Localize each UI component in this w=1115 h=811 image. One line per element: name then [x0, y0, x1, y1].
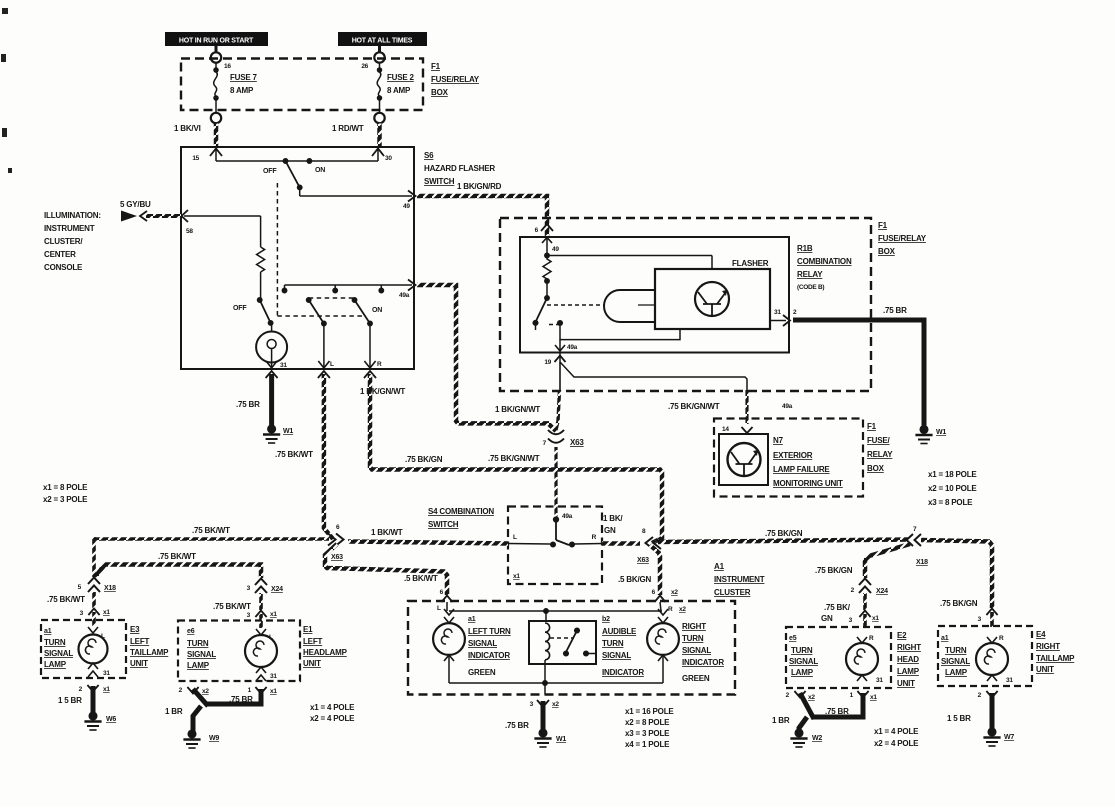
node X63 junction (right) [646, 537, 662, 549]
wire 5 GY/BU [121, 211, 181, 222]
svg-text:FUSE/: FUSE/ [867, 436, 891, 445]
svg-text:BOX: BOX [867, 464, 885, 473]
audible turn signal indicator b2 relay box [529, 621, 596, 664]
fuse FUSE 2 8 AMP [374, 46, 384, 123]
pin 2 x1 below E3 [87, 685, 98, 692]
svg-text:OFF: OFF [263, 168, 277, 175]
wire illumination branch [184, 216, 261, 247]
svg-text:RIGHT: RIGHT [1036, 642, 1060, 651]
svg-text:BOX: BOX [431, 88, 449, 97]
ground W9 [183, 730, 200, 748]
resistor (relay) [543, 257, 551, 279]
flasher unit box [655, 269, 770, 329]
wire cluster top bus [447, 602, 662, 621]
turn signal indicator lamp left (a1) [433, 609, 465, 683]
pin 31 / pin L / pin R of S6 [266, 324, 376, 370]
connector X24 (left) [255, 579, 267, 594]
svg-text:ILLUMINATION:: ILLUMINATION: [44, 211, 101, 220]
svg-text:LAMP: LAMP [897, 667, 920, 676]
svg-text:1 BK/WT: 1 BK/WT [371, 528, 403, 537]
svg-text:31: 31 [280, 362, 287, 369]
svg-text:1 BK/GN/WT: 1 BK/GN/WT [360, 387, 405, 396]
svg-text:49: 49 [552, 246, 559, 253]
label b2 AUDIBLE TURN SIGNAL INDICATOR [602, 616, 644, 677]
node X63 junction (left) [328, 534, 344, 546]
label E3 LEFT TAILLAMP UNIT [130, 625, 169, 668]
svg-text:A1: A1 [714, 562, 725, 571]
svg-text:X24: X24 [876, 588, 888, 595]
hazard flasher switch S6 box [181, 147, 414, 369]
svg-text:30: 30 [385, 155, 392, 162]
svg-text:1 5 BR: 1 5 BR [947, 714, 971, 723]
exit arrows below S6 [266, 371, 376, 378]
svg-text:1 5 BR: 1 5 BR [58, 696, 82, 705]
svg-text:14: 14 [722, 426, 729, 433]
svg-text:OFF: OFF [233, 305, 247, 312]
transistor (monitoring unit) [728, 443, 761, 476]
pin 49 exit arrow [408, 191, 416, 202]
label a1 LEFT TURN SIGNAL INDICATOR GREEN [468, 616, 511, 677]
svg-text:GREEN: GREEN [468, 668, 496, 677]
svg-text:49a: 49a [567, 344, 578, 351]
svg-text:49a: 49a [782, 403, 793, 410]
switch S4 contacts [508, 521, 602, 547]
svg-text:.75 BK/GN/WT: .75 BK/GN/WT [668, 402, 720, 411]
wire .75 BK/WT (long left feed) [94, 537, 329, 541]
svg-text:SWITCH: SWITCH [424, 177, 455, 186]
svg-text:R: R [999, 635, 1004, 642]
wire .75 BK/GN (from pin R) [370, 374, 662, 543]
svg-text:.75 BK/WT: .75 BK/WT [275, 450, 313, 459]
svg-text:x1: x1 [872, 615, 879, 622]
ground W1 (cluster) [534, 729, 551, 747]
svg-text:1 BK/GN/WT: 1 BK/GN/WT [495, 405, 540, 414]
svg-text:W2: W2 [812, 735, 822, 742]
label F1 FUSE/RELAY BOX (monitoring) [867, 422, 893, 473]
wire .75 BK/GN (long right feed) [658, 540, 908, 543]
svg-text:x2: x2 [202, 688, 209, 695]
svg-text:W1: W1 [556, 736, 566, 743]
connector X63 (center) [548, 430, 564, 443]
svg-text:AUDIBLE: AUDIBLE [602, 627, 637, 636]
label illumination instrument cluster/center console [44, 211, 101, 272]
svg-text:.75 BK/GN: .75 BK/GN [815, 566, 853, 575]
svg-text:W1: W1 [283, 428, 293, 435]
wire to E3 pin 3 [92, 592, 96, 608]
relay output pin 31/2 [770, 315, 790, 326]
svg-text:RELAY: RELAY [867, 450, 893, 459]
pin 30 [372, 149, 384, 157]
label F1 FUSE/RELAY BOX (top) [431, 62, 480, 97]
svg-text:x3 = 3 POLE: x3 = 3 POLE [625, 729, 670, 738]
svg-text:RIGHT: RIGHT [682, 622, 706, 631]
pin 6 entry left [442, 596, 453, 603]
svg-text:x1: x1 [513, 573, 520, 580]
svg-text:(CODE B): (CODE B) [797, 284, 824, 291]
svg-text:CENTER: CENTER [44, 250, 76, 259]
connector X24 (right) [859, 579, 871, 594]
svg-text:a1: a1 [941, 635, 949, 642]
svg-text:W6: W6 [106, 716, 116, 723]
relay b2 link and contacts [550, 628, 596, 656]
svg-text:.75 BK/GN/WT: .75 BK/GN/WT [488, 454, 540, 463]
svg-text:LAMP: LAMP [791, 668, 814, 677]
svg-text:INDICATOR: INDICATOR [682, 658, 724, 667]
svg-text:.75 BK/GN: .75 BK/GN [940, 599, 978, 608]
turn signal lamp E3 [79, 627, 108, 677]
svg-text:X24: X24 [271, 586, 283, 593]
svg-text:HOT AT ALL TIMES: HOT AT ALL TIMES [352, 38, 413, 45]
svg-text:.5 BK/WT: .5 BK/WT [404, 574, 438, 583]
monitoring unit inner box [719, 434, 768, 485]
svg-text:x1: x1 [270, 611, 277, 618]
svg-text:FUSE/RELAY: FUSE/RELAY [431, 75, 480, 84]
svg-text:TAILLAMP: TAILLAMP [130, 648, 169, 657]
svg-text:x1 = 16 POLE: x1 = 16 POLE [625, 707, 674, 716]
svg-text:TURN: TURN [44, 638, 66, 647]
wire hazard switch feed row [216, 147, 378, 161]
svg-text:INDICATOR: INDICATOR [468, 651, 510, 660]
svg-text:x1: x1 [270, 688, 277, 695]
svg-text:R: R [592, 534, 597, 541]
svg-text:x2: x2 [679, 606, 686, 613]
svg-text:E3: E3 [130, 625, 140, 634]
wire .75 BR / 1 BR to ground W2 [799, 693, 863, 731]
svg-text:R: R [869, 635, 874, 642]
pin 15 [210, 149, 222, 157]
svg-text:HEADLAMP: HEADLAMP [303, 648, 348, 657]
svg-text:19: 19 [544, 359, 551, 366]
svg-text:1 BR: 1 BR [165, 707, 183, 716]
svg-text:49a: 49a [399, 292, 410, 299]
svg-text:FLASHER: FLASHER [732, 259, 769, 268]
label A1 INSTRUMENT CLUSTER [714, 562, 765, 597]
svg-text:a1: a1 [468, 616, 476, 623]
svg-text:16: 16 [224, 63, 231, 70]
svg-text:x1 = 4 POLE: x1 = 4 POLE [874, 727, 919, 736]
svg-text:TURN: TURN [187, 639, 209, 648]
svg-text:ON: ON [315, 167, 325, 174]
svg-text:GREEN: GREEN [682, 674, 710, 683]
svg-text:CLUSTER/: CLUSTER/ [44, 237, 83, 246]
pin 49a bottom of relay [536, 323, 566, 351]
svg-text:LEFT: LEFT [130, 637, 150, 646]
svg-text:5 GY/BU: 5 GY/BU [120, 200, 151, 209]
relay coil [604, 290, 655, 322]
svg-text:S6: S6 [424, 151, 434, 160]
wire contact to flasher [560, 323, 680, 340]
svg-text:HAZARD FLASHER: HAZARD FLASHER [424, 164, 495, 173]
svg-text:.75 BR: .75 BR [883, 306, 907, 315]
turn signal indicator lamp right [647, 609, 679, 683]
svg-text:1 BK/GN/RD: 1 BK/GN/RD [457, 182, 502, 191]
label E4 RIGHT TAILLAMP UNIT [1036, 630, 1075, 674]
wire relay down to X63 center [559, 362, 561, 390]
svg-text:ON: ON [372, 307, 382, 314]
svg-text:.75 BK/GN: .75 BK/GN [765, 529, 803, 538]
wire .75 BK/GN branch to X24 right [865, 544, 910, 578]
svg-text:x2 = 8 POLE: x2 = 8 POLE [625, 718, 670, 727]
svg-text:L: L [330, 361, 334, 368]
svg-text:x1 = 18 POLE: x1 = 18 POLE [928, 470, 977, 479]
fuse/relay box F1 (relay, dashed) [500, 218, 871, 391]
svg-text:W7: W7 [1004, 734, 1014, 741]
svg-text:.75 BR: .75 BR [229, 695, 253, 704]
label R18 COMBINATION RELAY (CODE B) [797, 244, 852, 291]
svg-text:L: L [513, 534, 517, 541]
wire 1 BK/GN/WT (terminal 49a to X63) [417, 285, 556, 431]
svg-text:LEFT: LEFT [303, 637, 323, 646]
svg-text:x2 = 3 POLE: x2 = 3 POLE [43, 495, 88, 504]
wire .75 BK/GN/WT (X63 to S4) [554, 447, 557, 518]
wire 1 RD/WT [377, 124, 382, 148]
pin 3 x1 into E3 [88, 609, 99, 616]
wire .75 BR cluster [541, 701, 546, 730]
pin 3 x2 cluster ground [537, 700, 549, 707]
svg-text:SIGNAL: SIGNAL [682, 646, 711, 655]
svg-text:F1: F1 [431, 62, 441, 71]
taillamp unit E4 box (right) [938, 626, 1032, 686]
lamp (hazard switch illumination) [256, 324, 287, 363]
svg-text:x2 = 4 POLE: x2 = 4 POLE [310, 714, 355, 723]
svg-text:TURN: TURN [945, 646, 967, 655]
svg-text:UNIT: UNIT [897, 679, 915, 688]
transistor (flasher) [695, 282, 729, 316]
wire .75 BR to ground [269, 374, 274, 428]
svg-text:LEFT TURN: LEFT TURN [468, 627, 511, 636]
wire .75 BR / 1 BR to ground W9 [193, 689, 261, 731]
wire .75 BK/GN to E4 [921, 540, 992, 608]
svg-text:HEAD: HEAD [897, 655, 919, 664]
svg-text:x4 = 1 POLE: x4 = 1 POLE [625, 740, 670, 749]
ground W1 (left) [263, 425, 280, 443]
wire 1 BK/GN (S4 to junction) [602, 541, 640, 546]
fuse F1-7 terminal top [215, 46, 218, 52]
svg-text:X18: X18 [916, 559, 928, 566]
connector X18 (right) [907, 534, 922, 546]
wire .5 BK/WT (junction to cluster) [325, 544, 447, 595]
svg-text:R: R [377, 361, 382, 368]
svg-text:1 BR: 1 BR [772, 716, 790, 725]
svg-text:e6: e6 [187, 628, 195, 635]
relay internal feed [545, 237, 712, 269]
svg-text:E1: E1 [303, 625, 313, 634]
svg-text:.75 BK/WT: .75 BK/WT [158, 552, 196, 561]
connector X18 (left) [88, 578, 100, 593]
svg-text:8 AMP: 8 AMP [387, 86, 411, 95]
svg-text:31: 31 [774, 309, 781, 316]
pin 2 x2 and pin 1 x1 below E2 [794, 691, 805, 698]
ground W6 [84, 712, 101, 730]
svg-text:SIGNAL: SIGNAL [44, 649, 73, 658]
svg-text:26: 26 [361, 63, 368, 70]
svg-text:SIGNAL: SIGNAL [468, 639, 497, 648]
power label HOT IN RUN OR START [165, 32, 268, 46]
svg-text:x2 = 4 POLE: x2 = 4 POLE [874, 739, 919, 748]
headlamp unit E1 box (left) [178, 621, 300, 682]
svg-text:FUSE 7: FUSE 7 [230, 73, 258, 82]
svg-text:COMBINATION: COMBINATION [797, 257, 852, 266]
svg-text:1 RD/WT: 1 RD/WT [332, 124, 364, 133]
power label HOT AT ALL TIMES [338, 32, 427, 46]
label E1 LEFT HEADLAMP UNIT [303, 625, 348, 668]
wire .75 BK/WT drop to X18 left [92, 537, 96, 577]
svg-text:x2: x2 [671, 589, 678, 596]
ground W7 [983, 728, 1000, 746]
wire 1.5 BR E3 [91, 686, 96, 714]
wire .5 BK/GN (junction to cluster) [650, 545, 660, 595]
svg-text:R: R [668, 606, 673, 613]
wire .75 BK/WT (from pin L) [324, 374, 333, 539]
ground W1 (right) [915, 426, 932, 444]
svg-text:x1 = 8 POLE: x1 = 8 POLE [43, 483, 88, 492]
svg-text:31: 31 [270, 673, 277, 680]
svg-text:49a: 49a [562, 513, 573, 520]
svg-text:.75 BK/WT: .75 BK/WT [213, 602, 251, 611]
wire cluster bottom bus [449, 664, 663, 695]
svg-text:.75 BK/: .75 BK/ [824, 603, 851, 612]
svg-text:SIGNAL: SIGNAL [789, 657, 818, 666]
svg-text:SIGNAL: SIGNAL [187, 650, 216, 659]
svg-text:15: 15 [192, 155, 199, 162]
wire 1 BK/GN/RD [417, 196, 547, 238]
svg-text:TURN: TURN [791, 646, 813, 655]
svg-text:RIGHT: RIGHT [897, 643, 921, 652]
svg-text:X63: X63 [331, 554, 343, 561]
svg-text:X18: X18 [104, 585, 116, 592]
svg-text:R1B: R1B [797, 244, 813, 253]
svg-text:x3 = 8 POLE: x3 = 8 POLE [928, 498, 973, 507]
pin 2 x2 and pin 1 x1 below E1 [187, 687, 198, 694]
svg-text:TAILLAMP: TAILLAMP [1036, 654, 1075, 663]
svg-text:X63: X63 [570, 438, 584, 447]
svg-text:EXTERIOR: EXTERIOR [773, 451, 813, 460]
svg-text:x1 = 4 POLE: x1 = 4 POLE [310, 703, 355, 712]
svg-text:UNIT: UNIT [1036, 665, 1054, 674]
pin 19 below relay box [555, 356, 566, 363]
svg-text:LAMP: LAMP [187, 661, 210, 670]
svg-text:HOT IN RUN OR START: HOT IN RUN OR START [179, 38, 254, 45]
svg-text:UNIT: UNIT [303, 659, 321, 668]
ground W2 [790, 729, 807, 747]
svg-text:L: L [101, 633, 105, 640]
svg-text:E4: E4 [1036, 630, 1046, 639]
label RIGHT TURN SIGNAL INDICATOR GREEN [682, 622, 724, 683]
svg-text:S4 COMBINATION: S4 COMBINATION [428, 507, 494, 516]
svg-text:x1: x1 [103, 609, 110, 616]
svg-text:F1: F1 [867, 422, 877, 431]
svg-text:RELAY: RELAY [797, 270, 823, 279]
fuse/relay box F1 (top, dashed) [181, 59, 423, 111]
svg-text:UNIT: UNIT [130, 659, 148, 668]
mechanical link (dashed) relay [549, 324, 558, 326]
legend cluster poles [625, 707, 674, 749]
svg-text:BOX: BOX [878, 247, 896, 256]
pin 6/x2 entry right [655, 596, 666, 603]
wire 1 BK/VI [214, 124, 219, 148]
legend x1/x2 poles (top left) [43, 483, 88, 504]
svg-text:x2 = 10 POLE: x2 = 10 POLE [928, 484, 977, 493]
exterior lamp failure monitoring unit N7 (dashed outer) [714, 419, 863, 497]
svg-text:.75 BR: .75 BR [825, 707, 849, 716]
turn signal lamp E2 [846, 637, 878, 681]
wire to E2 pin 3 [863, 593, 867, 610]
svg-text:.75 BR: .75 BR [505, 721, 529, 730]
mechanical link (dashed) [277, 183, 363, 316]
legend x1/x2/x3 poles [928, 470, 977, 507]
svg-text:CONSOLE: CONSOLE [44, 263, 83, 272]
switch S6 upper contacts OFF/ON [283, 159, 311, 190]
wire relay to N7 monitoring unit [560, 353, 747, 391]
svg-text:X63: X63 [637, 557, 649, 564]
svg-text:E2: E2 [897, 631, 907, 640]
switch S6 lower row feed line / terminal 49a [285, 280, 416, 291]
svg-text:SWITCH: SWITCH [428, 520, 459, 529]
svg-text:SIGNAL: SIGNAL [602, 651, 631, 660]
legend poles (right lamps) [874, 727, 919, 748]
svg-text:GN: GN [604, 526, 616, 535]
svg-text:TURN: TURN [602, 639, 624, 648]
svg-text:a1: a1 [44, 628, 52, 635]
svg-text:b2: b2 [602, 616, 610, 623]
svg-text:31: 31 [876, 677, 883, 684]
taillamp unit E3 box (left) [41, 620, 126, 678]
wire to E1 pin 3 [259, 593, 263, 610]
wire .75 BK/WT branch to X24 left [95, 565, 261, 579]
wire .75 BR (relay to ground) [793, 320, 924, 428]
pin 2 below E4 [986, 691, 997, 698]
label N7 EXTERIOR LAMP FAILURE MONITORING UNIT [773, 436, 843, 488]
turn signal lamp E4 [976, 637, 1008, 681]
label E2 RIGHT HEAD LAMP UNIT [897, 631, 921, 688]
svg-text:31: 31 [103, 670, 110, 677]
svg-text:58: 58 [186, 228, 193, 235]
svg-text:SIGNAL: SIGNAL [941, 657, 970, 666]
svg-text:x2: x2 [552, 701, 559, 708]
svg-text:CLUSTER: CLUSTER [714, 588, 751, 597]
svg-text:e5: e5 [789, 635, 797, 642]
svg-text:8 AMP: 8 AMP [230, 86, 254, 95]
svg-text:31: 31 [1006, 677, 1013, 684]
svg-text:x1: x1 [870, 694, 877, 701]
pin 6 entry into F1 [541, 224, 553, 231]
svg-text:L: L [269, 634, 273, 641]
wire S6 output to terminal 49 [300, 187, 412, 196]
fuse FUSE 7 8 AMP [211, 63, 221, 123]
svg-text:.75 BR: .75 BR [236, 400, 260, 409]
combination switch S4 box [508, 507, 602, 585]
svg-text:1 BK/: 1 BK/ [603, 514, 623, 523]
label S6 HAZARD FLASHER SWITCH [424, 151, 495, 186]
legend poles (left lamps) [310, 703, 355, 723]
svg-text:INSTRUMENT: INSTRUMENT [44, 224, 95, 233]
wire 1.5 BR E4 [990, 693, 995, 730]
svg-text:LAMP: LAMP [945, 668, 968, 677]
instrument cluster A1 box [408, 601, 735, 695]
scan specks [1, 8, 12, 173]
resistor (illumination dimmer) [257, 247, 265, 272]
svg-text:.75 BK/WT: .75 BK/WT [47, 595, 85, 604]
svg-text:.5 BK/GN: .5 BK/GN [618, 575, 651, 584]
svg-text:F1: F1 [878, 221, 888, 230]
turn signal lamp E1 [245, 629, 277, 681]
pin 3 into E4 [986, 609, 997, 616]
svg-text:LAMP: LAMP [44, 660, 67, 669]
svg-text:INDICATOR: INDICATOR [602, 668, 644, 677]
svg-text:LAMP FAILURE: LAMP FAILURE [773, 465, 830, 474]
svg-text:L: L [437, 605, 441, 612]
svg-text:49: 49 [403, 203, 410, 210]
